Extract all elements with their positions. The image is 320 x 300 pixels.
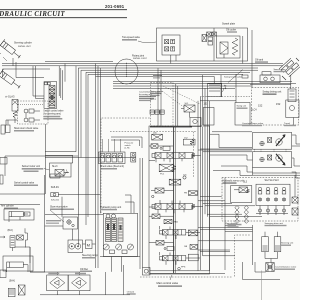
servo valves row3 — [256, 206, 288, 216]
svg-text:SLL3: SLL3 — [52, 166, 58, 168]
svg-text:SL5: SL5 — [243, 182, 248, 184]
bottom check — [18, 285, 25, 295]
right bottom section — [252, 225, 254, 265]
wire bottom left — [30, 247, 45, 272]
bottom tank line — [40, 265, 130, 295]
port wires bank4 — [160, 252, 201, 265]
svg-text:SLB-R1: SLB-R1 — [51, 187, 60, 189]
travel motor right steps — [292, 135, 300, 144]
arm cylinder box — [4, 209, 34, 220]
top right unit box — [260, 75, 280, 83]
left small filter — [1, 125, 5, 134]
dashed swing line — [200, 96, 250, 98]
travel unit connectors — [255, 149, 287, 152]
small pump circle box — [190, 118, 201, 127]
filter labels — [48, 273, 59, 275]
filler valves row D — [156, 241, 164, 246]
main control valve box — [149, 126, 210, 274]
check valve 1 — [24, 109, 28, 113]
swash leader — [228, 70, 243, 83]
svg-text:Travel: Travel — [284, 122, 291, 125]
svg-text:SLC4: SLC4 — [251, 110, 257, 112]
valve PC1 — [159, 164, 173, 172]
valve 101 — [169, 179, 181, 185]
dashed leaders — [158, 86, 200, 108]
wires swing — [203, 74, 237, 125]
valve 165 — [152, 134, 163, 140]
SLA3 spring — [13, 111, 17, 118]
svg-text:⊘-SLA3: ⊘-SLA3 — [5, 95, 15, 99]
inlet arrow — [0, 236, 5, 238]
header rule bottom — [0, 17, 127, 19]
wire swivel supply — [5, 156, 78, 176]
svg-text:201-0691: 201-0691 — [105, 4, 125, 9]
swing motor dashed enclosure — [151, 83, 174, 127]
cross wires to servo — [198, 197, 262, 217]
stepped wire — [25, 228, 28, 247]
small comp — [50, 174, 60, 178]
svg-text:(L.H): (L.H) — [125, 148, 130, 150]
svg-text:Swash plate: Swash plate — [274, 68, 287, 71]
oil tank box — [262, 72, 271, 75]
servo diamond chain 2 — [244, 206, 248, 224]
wire filter top left — [6, 120, 18, 125]
valve 152r — [183, 139, 195, 145]
relief valve symbol — [220, 42, 228, 54]
svg-text:SL2 SL4 SL3: SL2 SL4 SL3 — [265, 179, 280, 182]
nested corners — [243, 262, 281, 280]
svg-text:[B-H]: [B-H] — [9, 280, 15, 283]
svg-text:Oil tank: Oil tank — [127, 291, 135, 294]
spool bank 2 — [152, 204, 195, 210]
double vertical to box — [140, 158, 143, 269]
pressure switch body — [131, 153, 136, 158]
filler valves row A — [151, 144, 158, 148]
arm cylinder — [9, 212, 23, 217]
svg-text:Swivel control valve: Swivel control valve — [43, 110, 64, 113]
left edge element — [0, 175, 3, 184]
check valve 2 — [24, 118, 28, 122]
slow return check valve box — [18, 101, 49, 124]
diag leader — [50, 210, 64, 222]
svg-text:Slow return check valve: Slow return check valve — [14, 127, 39, 130]
pump unit wires — [100, 257, 140, 272]
swing valve box — [208, 83, 222, 96]
svg-text:152: 152 — [276, 102, 281, 106]
left port box — [0, 158, 7, 165]
header rule top — [0, 9, 127, 11]
small valve row — [150, 110, 154, 114]
svg-text:Slow return valve: Slow return valve — [50, 206, 68, 209]
slow return sub label — [46, 220, 61, 221]
servo valves row1 — [258, 187, 286, 194]
filter vertical — [10, 236, 15, 248]
wire left vertical — [44, 124, 46, 194]
servo right components — [292, 197, 298, 203]
svg-text:Swivel control valve: Swivel control valve — [14, 182, 35, 185]
wire filter feed — [30, 272, 80, 275]
wire bends into block — [33, 66, 44, 99]
right vertical cluster — [198, 88, 210, 270]
svg-text:Counterbalance valve: Counterbalance valve — [242, 122, 264, 125]
small valve left — [202, 35, 207, 42]
svg-text:Counterbalance valve: Counterbalance valve — [275, 266, 297, 269]
svg-text:PPS: PPS — [181, 267, 186, 269]
svg-text:Swash plate: Swash plate — [222, 23, 236, 26]
wire bundle horizontal — [45, 60, 113, 62]
servo left sub box — [231, 186, 252, 203]
wire two-speed drop — [170, 55, 172, 64]
accumulator 1 — [262, 237, 269, 252]
svg-text:Check valve (fixed unit): Check valve (fixed unit) — [100, 165, 124, 168]
accumulator 2 — [274, 237, 281, 252]
wire travel bottom — [253, 168, 301, 176]
svg-text:Swivel motor unit: Swivel motor unit — [22, 165, 41, 168]
steering pump box — [68, 240, 83, 253]
bottom filter — [8, 288, 15, 296]
swash plate cluster — [279, 57, 301, 78]
wire top right — [250, 75, 291, 89]
steering cylinder sketch — [0, 39, 23, 61]
oil cooler relief box — [217, 36, 241, 58]
acc wires — [265, 252, 278, 263]
relief spring — [232, 38, 238, 55]
wire pump feed — [45, 214, 103, 216]
corner wires to pump — [125, 195, 134, 213]
servo bus — [224, 178, 226, 271]
svg-text:Two-speed valve: Two-speed valve — [122, 36, 141, 39]
servo inner box — [256, 184, 290, 205]
svg-text:HYDRAULIC CIRCUIT: HYDRAULIC CIRCUIT — [0, 11, 66, 18]
spool bank 1 — [152, 153, 195, 159]
SLL2 valve box — [50, 163, 72, 177]
wire cooler right — [242, 36, 244, 64]
filler valves row C — [152, 214, 160, 219]
dashed enclosure left — [101, 118, 150, 213]
spool bank 3 — [160, 230, 198, 236]
svg-text:Steering cylinder: Steering cylinder — [14, 42, 32, 45]
valve PB — [188, 191, 197, 196]
SLC valve — [184, 105, 195, 112]
svg-text:152: 152 — [204, 103, 209, 106]
svg-text:Hydraulic servo unit: Hydraulic servo unit — [223, 180, 244, 183]
two-speed valve box — [157, 28, 248, 61]
travel motor unit 1 — [253, 133, 292, 150]
port wires bank2 — [149, 200, 203, 213]
slow return valve box — [63, 217, 78, 229]
upper small labels — [153, 75, 162, 76]
svg-text:SWIVEL JOINT: SWIVEL JOINT — [133, 58, 148, 60]
wire drops to valve block — [59, 64, 65, 101]
svg-text:SLC2: SLC2 — [151, 99, 157, 101]
wire frame corner — [3, 69, 51, 77]
svg-text:for swing unit: for swing unit — [139, 93, 152, 96]
wire right column — [251, 30, 253, 88]
spool bank 4 — [160, 254, 199, 261]
svg-text:152: 152 — [258, 104, 263, 108]
svg-text:Swing brake valve: Swing brake valve — [224, 76, 243, 79]
svg-text:525-151: 525-151 — [51, 200, 60, 202]
svg-text:(B-F): (B-F) — [8, 229, 14, 232]
servo left valve — [239, 187, 248, 193]
check cluster — [207, 32, 212, 36]
boom cylinder box — [3, 256, 33, 271]
servo valves row2 — [258, 198, 285, 201]
left edge bottom box — [0, 270, 6, 278]
port wires bank1 — [149, 156, 201, 163]
wire lower pair — [113, 81, 292, 83]
main pump unit — [103, 213, 137, 256]
small box — [51, 193, 59, 197]
staircase wires — [212, 131, 252, 133]
label near 225 — [228, 224, 242, 226]
counterbalance valve — [266, 263, 274, 272]
check box — [17, 235, 24, 240]
oil filter diamond 2 — [68, 275, 90, 291]
dotted pilot line — [18, 104, 44, 106]
valve PA — [190, 245, 198, 250]
swing sub box 1 — [203, 108, 214, 126]
svg-text:Hydraulic pump unit: Hydraulic pump unit — [100, 206, 121, 209]
two-speed valve spools — [165, 40, 169, 44]
check valve row (fixed unit) — [45, 157, 131, 159]
filler valves row B — [155, 188, 164, 193]
pressure switch nest — [111, 137, 142, 148]
svg-text:Oil filter: Oil filter — [80, 268, 88, 271]
port wires bank3 — [160, 226, 201, 239]
leader to two-speed valve — [138, 41, 156, 43]
svg-text:Steering pump: Steering pump — [82, 254, 98, 257]
svg-text:Swing driving unit: Swing driving unit — [263, 90, 282, 93]
steering cylinder 2 sketch — [0, 69, 23, 91]
wire corners to SLL2 — [45, 155, 72, 163]
wire drops center-left — [76, 66, 81, 246]
main bus vertical — [173, 127, 175, 274]
swivel unit top edge — [0, 204, 40, 206]
hydraulic servo unit dashed box — [222, 178, 298, 222]
svg-text:Steering unit: Steering unit — [281, 242, 294, 245]
svg-text:Main control valve: Main control valve — [157, 281, 179, 285]
svg-text:SWIVEL UNIT: SWIVEL UNIT — [18, 46, 31, 48]
svg-text:Oil tank: Oil tank — [255, 59, 264, 62]
swing motor box — [286, 100, 299, 118]
svg-text:(for steering arm): (for steering arm) — [43, 113, 61, 116]
svg-text:Oil cooler: Oil cooler — [226, 29, 236, 32]
svg-text:Swinging drive unit: Swinging drive unit — [265, 222, 284, 225]
SLA3 valve — [12, 100, 18, 112]
swivel unit lower left — [0, 193, 45, 195]
pump circles — [103, 244, 109, 250]
swing spring — [223, 85, 227, 92]
boom cylinder 2 — [7, 262, 24, 268]
svg-text:Swing unit: Swing unit — [237, 105, 247, 108]
gray drop — [261, 271, 263, 300]
svg-text:M: M — [87, 243, 90, 248]
wire swing feeders — [113, 86, 252, 88]
rotary joint — [115, 59, 138, 84]
travel motor unit 2 — [253, 152, 292, 168]
steering control valve block — [44, 82, 57, 109]
motor M — [86, 240, 93, 249]
swing sub box 2 — [235, 103, 250, 126]
svg-text:Arm cylinder: Arm cylinder — [1, 205, 14, 208]
wire cylinder ports — [13, 58, 44, 78]
oil filter diamond 1 — [47, 275, 68, 291]
swing relief — [288, 89, 296, 102]
servo diamond chain 1 — [235, 206, 239, 224]
swing driving unit dashed box — [252, 88, 299, 126]
